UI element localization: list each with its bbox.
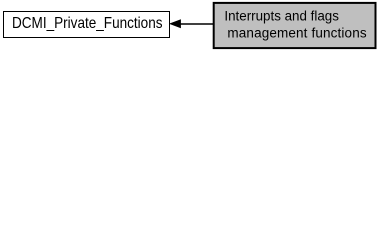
node Interrupts and flags management functions (gray box): [214, 3, 376, 48]
svg-text:DCMI_Private_Functions: DCMI_Private_Functions: [12, 15, 163, 32]
svg-text:management functions: management functions: [227, 25, 366, 40]
background: [0, 0, 380, 52]
svg-text:Interrupts and flags: Interrupts and flags: [224, 9, 339, 24]
node DCMI_Private_Functions (box): [4, 12, 170, 38]
wire: arrow shaft from gray box to arrowhead: [180, 23, 214, 25]
arrowhead pointing left at DCMI box: [170, 20, 180, 28]
